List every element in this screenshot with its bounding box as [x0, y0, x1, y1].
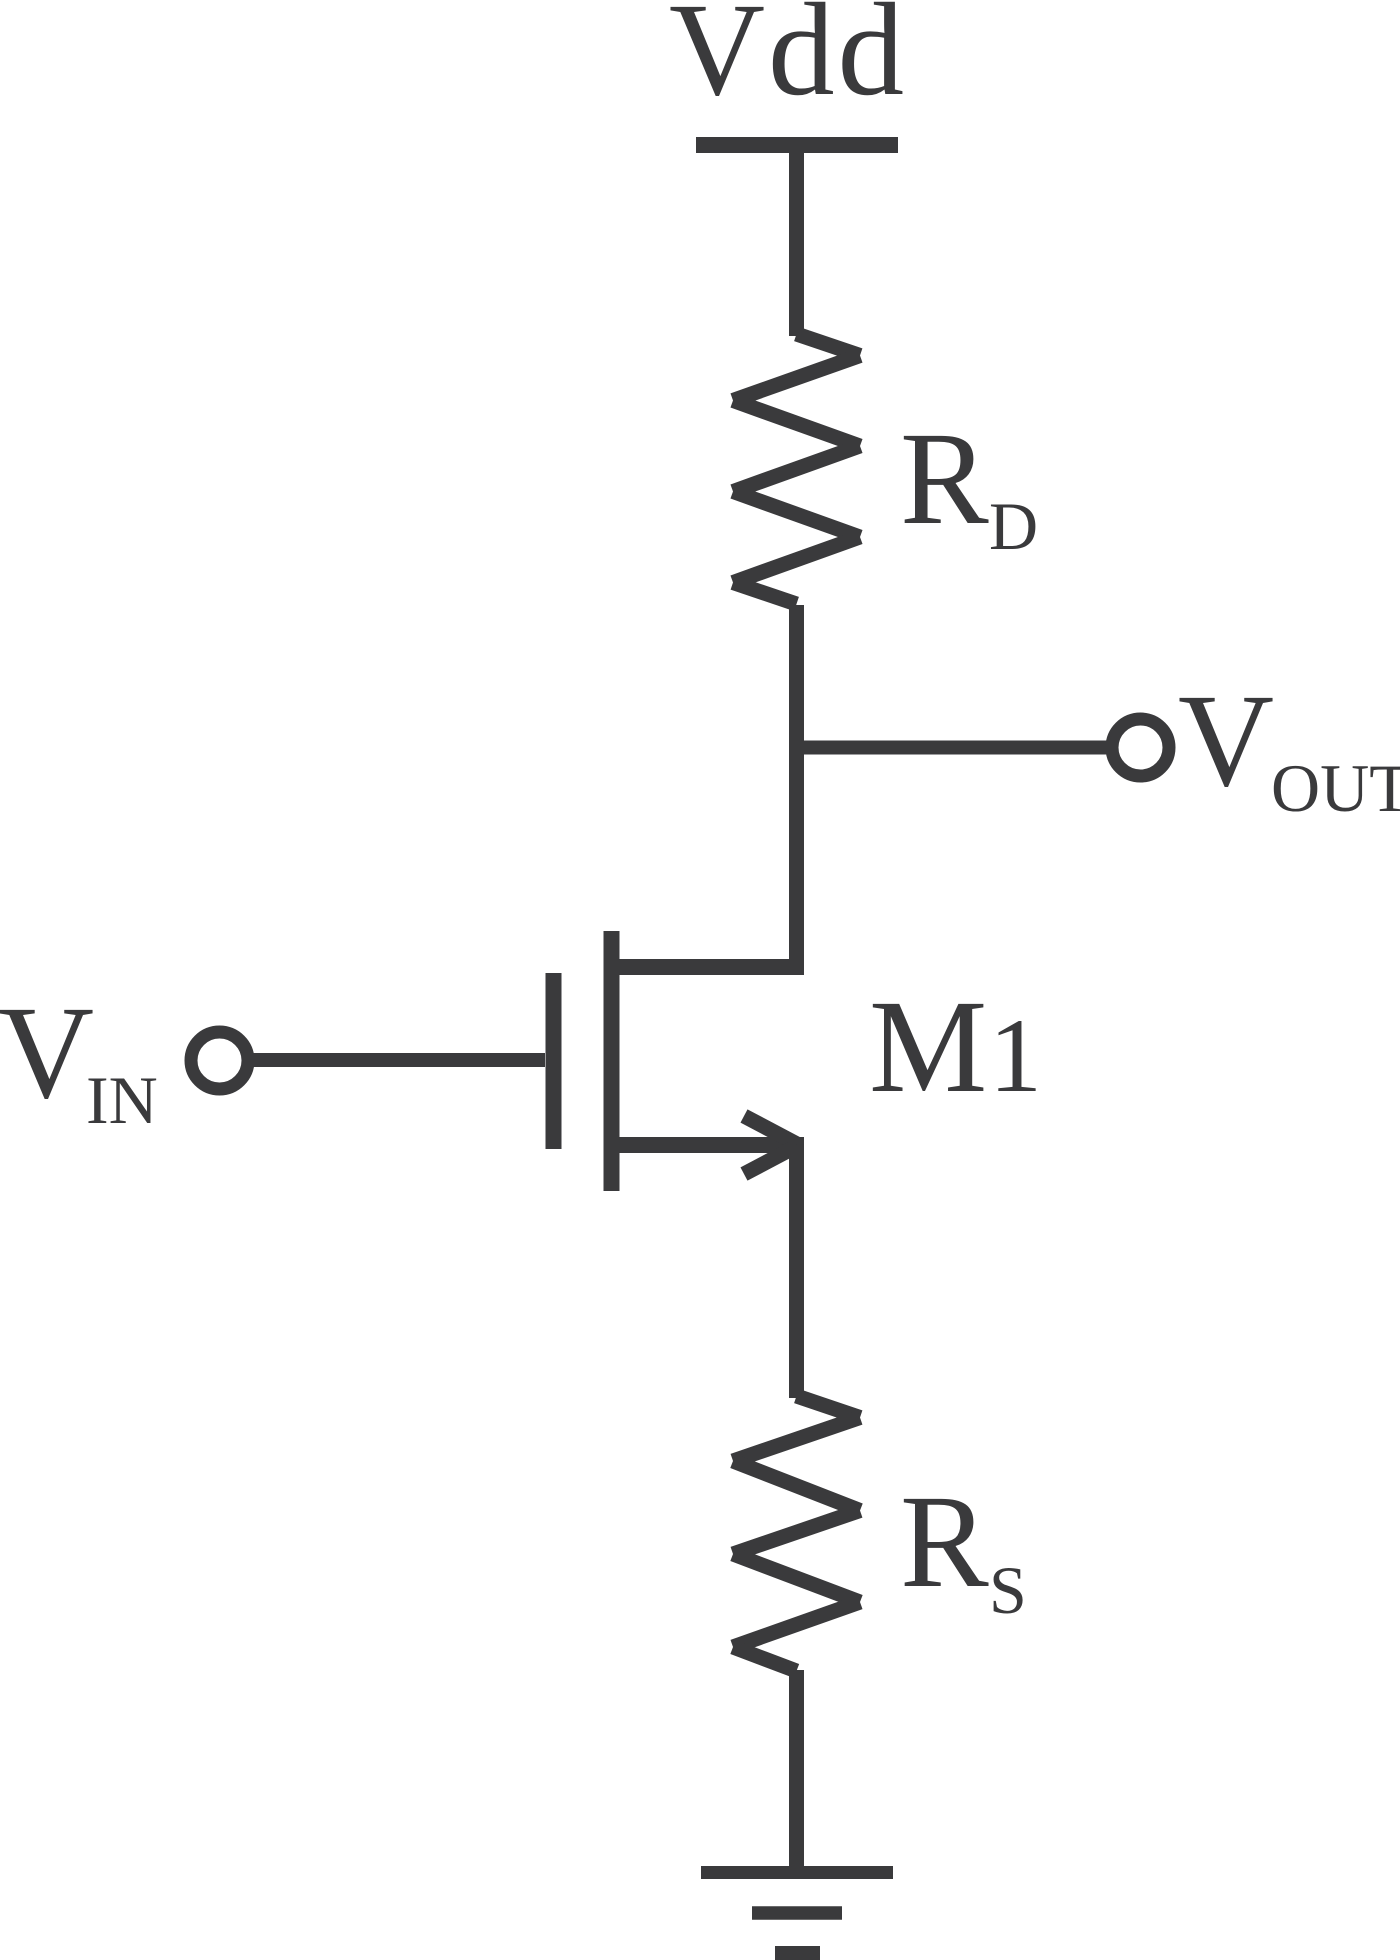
- wire VIN terminal to gate: [248, 1053, 545, 1067]
- wire node to VOUT terminal: [797, 741, 1113, 755]
- ground bar 2: [752, 1906, 842, 1920]
- svg-text:Vdd: Vdd: [669, 0, 907, 123]
- transistor M1 channel bar: [604, 931, 620, 1191]
- svg-text:OUT: OUT: [1271, 750, 1400, 826]
- label RS: [900, 1467, 1027, 1628]
- transistor M1 drain stub: [612, 959, 805, 975]
- ground bar 3: [775, 1946, 820, 1960]
- svg-text:V: V: [0, 978, 94, 1126]
- label RD: [900, 404, 1038, 564]
- label VOUT: [1178, 666, 1400, 826]
- resistor RD: [733, 334, 860, 604]
- wire source to RS top: [789, 1145, 804, 1398]
- svg-text:R: R: [900, 1467, 989, 1615]
- resistor RS: [733, 1396, 860, 1671]
- svg-text:D: D: [989, 488, 1038, 564]
- transistor M1 source arrow: [744, 1116, 797, 1174]
- svg-text:V: V: [1178, 666, 1274, 814]
- wire RS bottom to ground: [789, 1670, 804, 1872]
- label M1: [869, 972, 1042, 1120]
- svg-text:R: R: [900, 404, 989, 552]
- wire drain to node: [789, 967, 804, 975]
- power rail Vdd bar: [696, 137, 898, 153]
- label VIN: [0, 978, 158, 1138]
- transistor M1 gate bar: [546, 973, 562, 1149]
- transistor M1 source stub: [612, 1137, 805, 1153]
- svg-text:M: M: [869, 972, 987, 1120]
- terminal VIN circle: [191, 1032, 248, 1089]
- ground bar 1: [701, 1866, 893, 1879]
- svg-text:IN: IN: [86, 1062, 158, 1138]
- terminal VOUT circle: [1112, 719, 1169, 776]
- svg-text:1: 1: [989, 997, 1042, 1114]
- wire Vdd bar to RD top: [789, 145, 804, 336]
- wire RD bottom to drain: [789, 605, 804, 967]
- svg-text:S: S: [989, 1552, 1027, 1628]
